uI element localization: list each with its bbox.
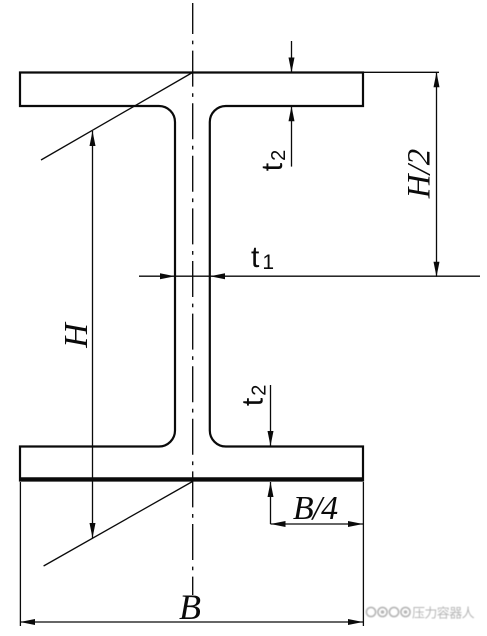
extension line left: [19, 482, 21, 626]
dimension B line: [20, 621, 363, 623]
oblique extension line bottom: [44, 482, 193, 567]
svg-text:B: B: [179, 587, 201, 627]
bottom flange thick bottom edge: [19, 477, 364, 481]
svg-text:H/2: H/2: [402, 149, 438, 200]
svg-text:H: H: [58, 321, 95, 349]
dimension t1 line: [139, 275, 480, 277]
dimension H/2 line: [436, 72, 438, 276]
watermark: [366, 606, 474, 621]
svg-text:压力容器人: 压力容器人: [412, 606, 475, 621]
dimension H line: [92, 131, 94, 538]
dimension t2 bottom lines: [270, 385, 272, 446]
I-beam profile: [20, 73, 363, 481]
dimension t2 top lines: [291, 41, 293, 73]
extension line right: [362, 482, 364, 626]
H/2 extension line: [364, 71, 439, 73]
centerline: [192, 3, 194, 595]
svg-text:B/4: B/4: [293, 490, 338, 527]
oblique extension line top: [41, 73, 193, 161]
dimension B/4 line: [271, 523, 364, 525]
